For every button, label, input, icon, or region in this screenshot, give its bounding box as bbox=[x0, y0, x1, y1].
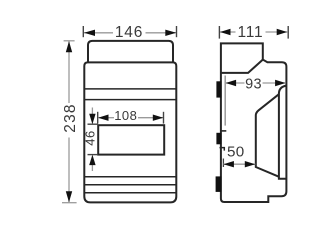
dim 50 extension tick left bbox=[222, 159, 224, 168]
front view rib line 4 bbox=[85, 184, 176, 186]
dim 108 shaft right bbox=[138, 117, 163, 119]
dim 238 arrowhead up bbox=[66, 41, 72, 52]
dim 46 arrowhead up bbox=[89, 155, 95, 166]
dim 93 shaft left bbox=[226, 82, 245, 84]
svg-text:111: 111 bbox=[238, 24, 264, 41]
dim 50 arrowhead right bbox=[245, 161, 256, 167]
dim 111 shaft left bbox=[220, 31, 236, 33]
dim 238 shaft bottom bbox=[68, 138, 70, 203]
dim 146 shaft right bbox=[146, 32, 177, 34]
mounting tab 3 bbox=[216, 176, 222, 192]
dim 50 shaft bbox=[224, 163, 256, 165]
dim 146 extension tick right bbox=[176, 26, 178, 37]
dim 46 shaft below bbox=[91, 164, 93, 171]
dim 93 arrowhead left bbox=[226, 80, 237, 86]
dim 111 extension tick right bbox=[287, 26, 289, 39]
front view lid outline bbox=[88, 41, 173, 63]
front view rib line 1 bbox=[85, 88, 176, 90]
dim 50 arrowhead left bbox=[223, 161, 234, 167]
dim 146 shaft left bbox=[84, 32, 113, 34]
dim 46 extension tick top bbox=[88, 123, 98, 125]
dim 111 arrowhead right bbox=[277, 29, 288, 35]
dim 238 extension tick top bbox=[64, 40, 75, 42]
dim 108 arrowhead right bbox=[153, 115, 164, 121]
dim 108 extension tick left bbox=[97, 112, 99, 124]
dim 108 extension tick right bbox=[163, 112, 165, 124]
side view cover inner edge bbox=[279, 86, 287, 179]
front view window rectangle bbox=[98, 125, 164, 154]
front view rib line 2 bbox=[85, 99, 176, 101]
svg-text:93: 93 bbox=[245, 77, 262, 93]
side view lid bottom line and bevel bbox=[221, 60, 263, 73]
dim 238 arrowhead down bbox=[66, 191, 72, 202]
dim 111 arrowhead left bbox=[220, 29, 231, 35]
dim 146 arrowhead left bbox=[84, 30, 95, 36]
dim 111 shaft right bbox=[266, 31, 288, 33]
bracket stub below tab 2 bbox=[220, 148, 225, 151]
dim 238 shaft top bbox=[68, 42, 70, 104]
dim 93 shaft right bbox=[263, 82, 286, 84]
svg-text:108: 108 bbox=[114, 108, 137, 123]
dim 146 arrowhead right bbox=[165, 30, 176, 36]
front view rib line 5 bbox=[85, 192, 176, 194]
dim 46 arrowhead down bbox=[89, 114, 95, 125]
dim 93 arrowhead right bbox=[275, 80, 286, 86]
dim 46 shaft above bbox=[91, 108, 93, 116]
side view outer outline bbox=[221, 43, 287, 202]
dim 93 extension line bbox=[224, 76, 226, 126]
svg-text:46: 46 bbox=[82, 130, 97, 145]
dim 108 shaft left bbox=[98, 117, 114, 119]
svg-text:50: 50 bbox=[227, 143, 245, 160]
bracket stub above tab 2 bbox=[221, 130, 226, 132]
dim 46 extension tick bottom bbox=[88, 154, 98, 156]
svg-text:146: 146 bbox=[115, 24, 143, 41]
dim 146 extension tick left bbox=[82, 26, 84, 37]
front view body outline bbox=[84, 62, 176, 202]
mounting tab 2 bbox=[216, 133, 221, 145]
dim 238 extension tick bottom bbox=[62, 202, 77, 204]
dim 111 extension tick left bbox=[218, 26, 220, 39]
svg-text:238: 238 bbox=[62, 103, 79, 132]
front view rib line 3 bbox=[85, 176, 176, 178]
mounting tab 1 bbox=[216, 81, 221, 97]
side view inner panel profile bbox=[256, 94, 279, 176]
dim 108 arrowhead left bbox=[98, 115, 109, 121]
